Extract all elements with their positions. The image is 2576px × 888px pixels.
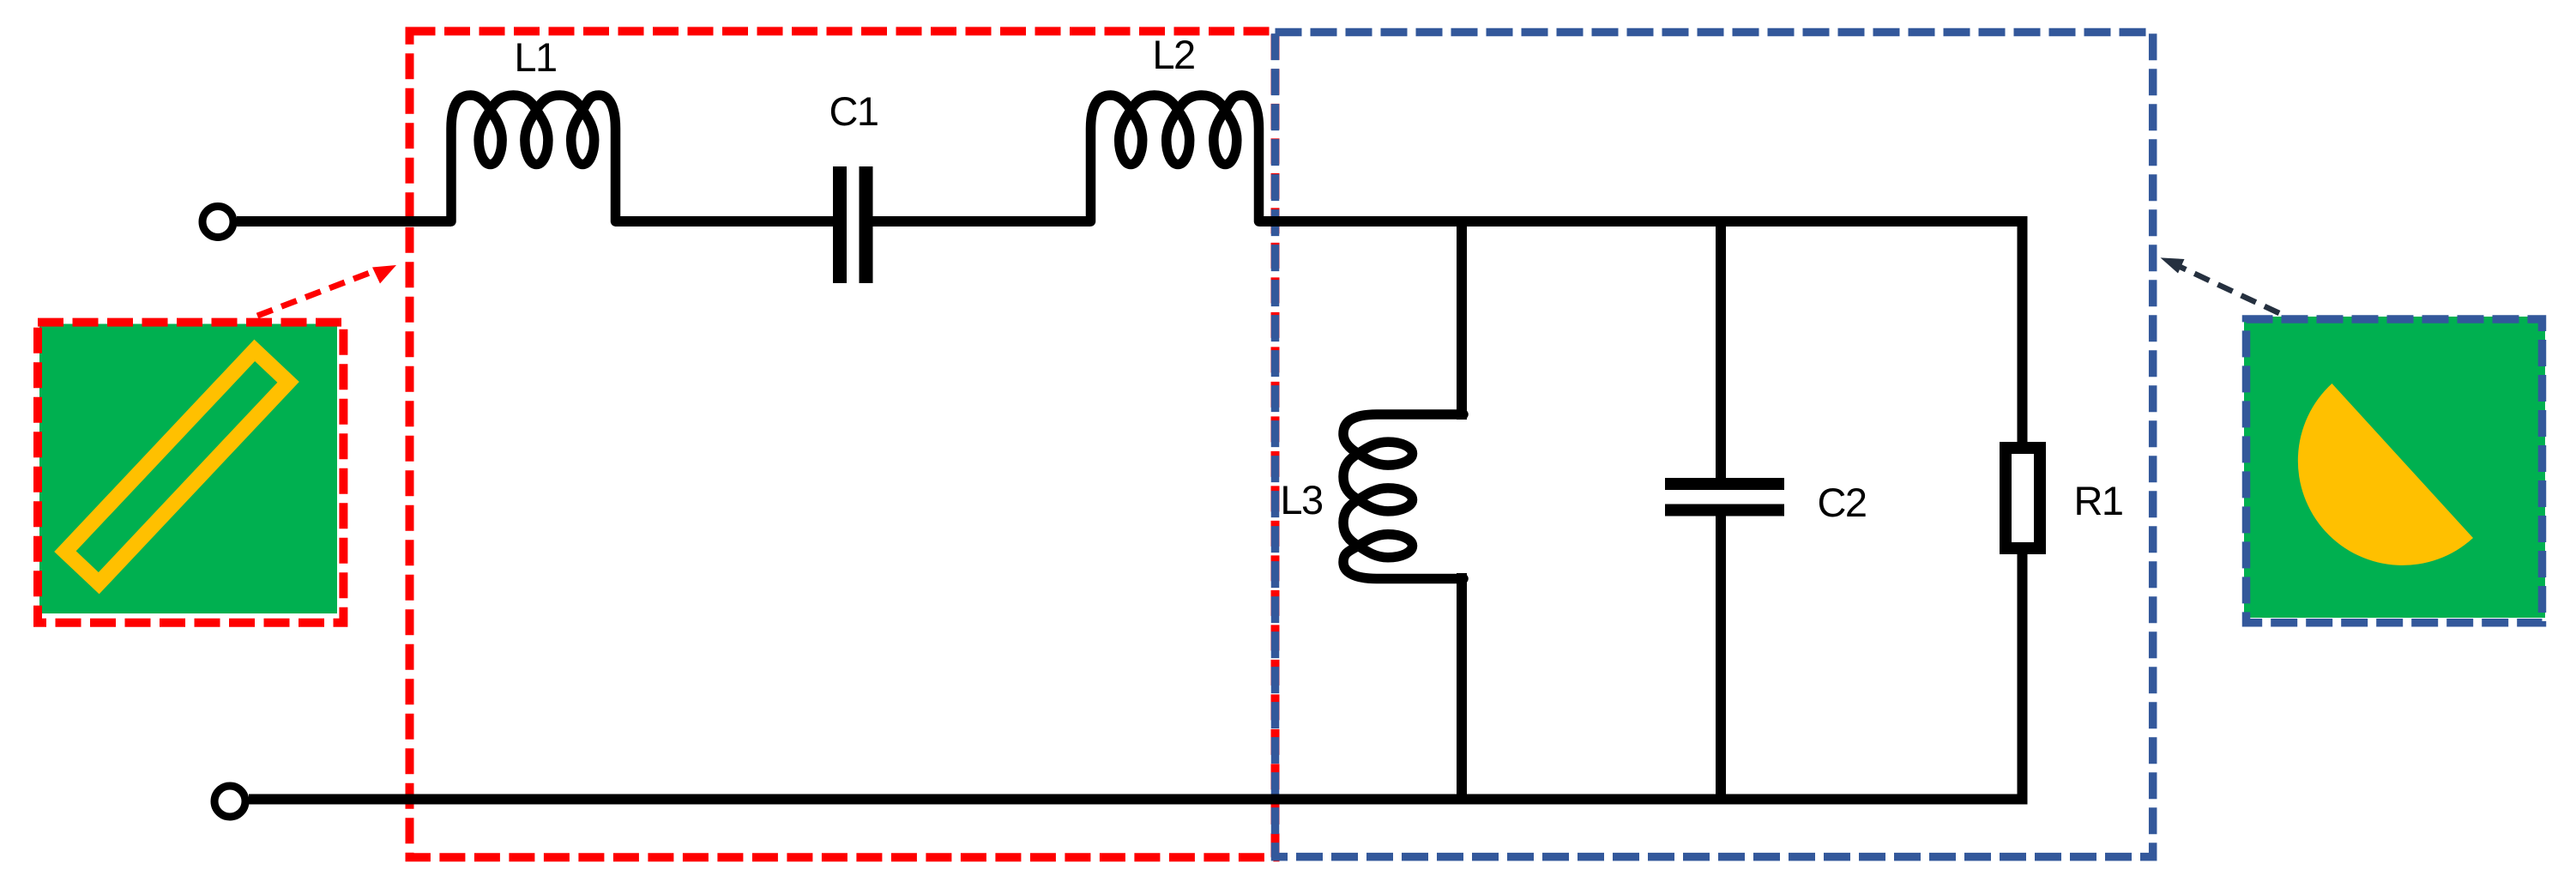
yellow trace rectangle icon: [65, 350, 288, 583]
yellow half-disc icon: [2298, 384, 2473, 565]
resistor R1 body: [2006, 448, 2040, 548]
wire: top rail from L2 to top-right corner, down to R1: [1259, 221, 2023, 443]
blue dashed box (load network, right): [1276, 33, 2153, 857]
blue dashed border of right green square: [2247, 319, 2543, 623]
svg-text:L1: L1: [514, 34, 556, 80]
wire: top rail segment from input terminal to L1: [237, 216, 451, 227]
capacitor C1 (series): [833, 166, 847, 283]
dark arrowhead: [2161, 257, 2185, 273]
wire: bottom rail from input terminal to bottom-right corner, up to R1: [249, 553, 2023, 800]
svg-text:C2: C2: [1817, 480, 1866, 525]
green square (right, load icon) with blue dashed border: [2244, 317, 2545, 618]
red arrowhead: [372, 265, 396, 284]
capacitor C2 (shunt): top lead: [1716, 216, 1726, 478]
input terminal (top port circle): [202, 207, 233, 238]
wire: top rail between L1 and C1: [615, 216, 833, 227]
inductor L3 coil (transposed copy of L1 profile): [1343, 414, 1463, 579]
input terminal (bottom port circle): [214, 786, 245, 817]
wire: top rail between C1 and L2: [873, 216, 1091, 227]
inductor L1: [451, 95, 616, 221]
inductor L3: vertical riser to bottom rail: [1457, 573, 1467, 804]
capacitor C2 bottom lead: [1716, 516, 1726, 805]
svg-text:R1: R1: [2073, 478, 2122, 523]
svg-text:C1: C1: [829, 88, 878, 134]
svg-text:L2: L2: [1152, 32, 1194, 77]
capacitor C2 plates: [1665, 478, 1784, 490]
red dashed border of left green square: [38, 323, 343, 623]
svg-text:L3: L3: [1280, 477, 1323, 523]
green square (left, PCB trace icon) with red dashed border: [39, 324, 337, 614]
inductor L2: [1091, 95, 1259, 221]
dark dashed callout arrow (from right green square to blue box): [2180, 267, 2279, 313]
red dashed box (matching network, left): [410, 31, 1276, 857]
red dashed callout arrow (from left green square to red box): [257, 271, 374, 316]
inductor L3 (shunt): vertical drop from top rail: [1457, 216, 1467, 420]
